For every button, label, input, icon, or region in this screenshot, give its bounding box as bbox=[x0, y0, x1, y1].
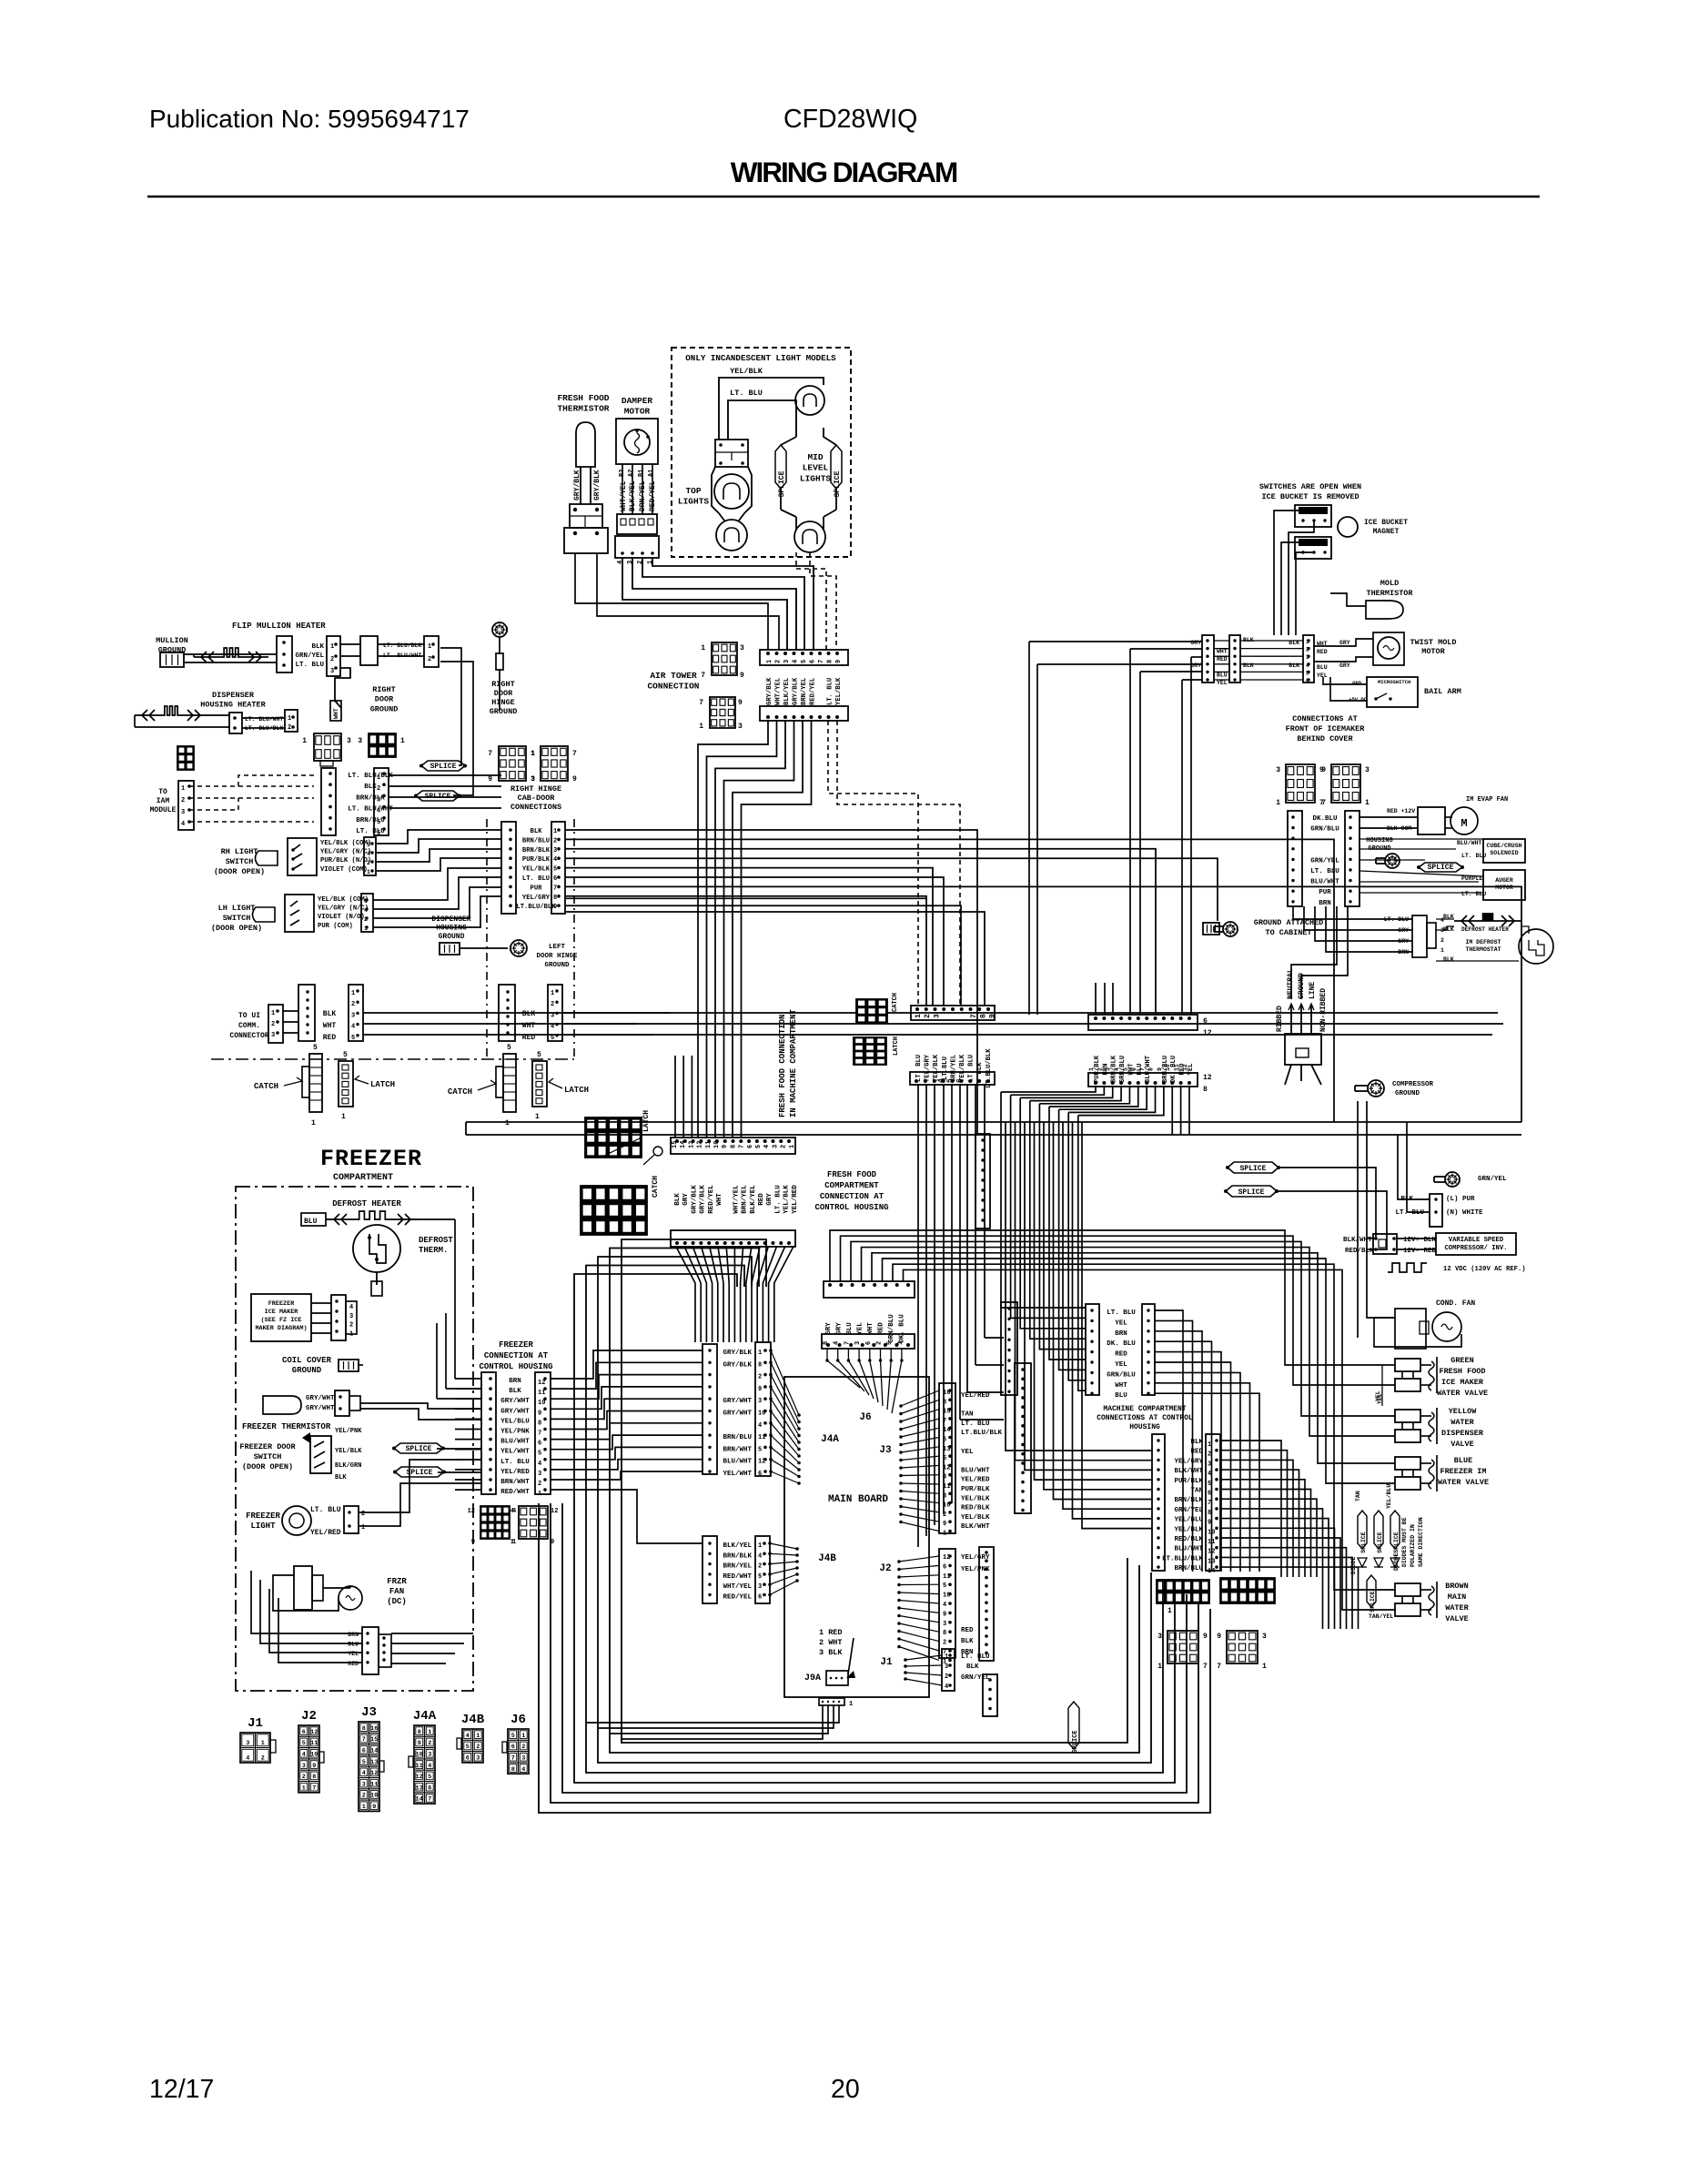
freezer conn dark grid A bbox=[468, 1506, 517, 1546]
splice right 2 bbox=[1224, 1186, 1279, 1197]
svg-text:6: 6 bbox=[1131, 1067, 1137, 1071]
svg-text:6: 6 bbox=[865, 1341, 873, 1345]
svg-text:BRN: BRN bbox=[348, 1632, 359, 1638]
svg-text:6: 6 bbox=[538, 1441, 541, 1448]
svg-text:HOUSING: HOUSING bbox=[1129, 1423, 1160, 1431]
svg-text:GRY: GRY bbox=[836, 1322, 844, 1335]
svg-text:GRN/BLU: GRN/BLU bbox=[888, 1314, 895, 1343]
svg-text:YEL/RED: YEL/RED bbox=[500, 1469, 530, 1476]
svg-text:GROUND: GROUND bbox=[1395, 1090, 1420, 1097]
j3 right strip bbox=[1015, 1363, 1031, 1513]
cond fan wires bbox=[1374, 1318, 1461, 1347]
svg-text:9: 9 bbox=[722, 1145, 729, 1148]
svg-text:WATER VALVE: WATER VALVE bbox=[1437, 1389, 1488, 1398]
latch leader bbox=[601, 1137, 642, 1158]
svg-text:CONNECTION AT: CONNECTION AT bbox=[484, 1351, 549, 1360]
svg-text:7: 7 bbox=[970, 1014, 978, 1018]
svg-text:2: 2 bbox=[1208, 1451, 1211, 1459]
defrost right blk labels bbox=[1443, 914, 1454, 963]
svg-text:RED/BLK: RED/BLK bbox=[961, 1505, 990, 1512]
svg-text:1: 1 bbox=[400, 737, 405, 745]
svg-text:9: 9 bbox=[835, 660, 843, 663]
svg-text:BLK: BLK bbox=[509, 1388, 521, 1395]
svg-text:BRN/BLU: BRN/BLU bbox=[1174, 1565, 1203, 1572]
svg-text:THERMISTOR: THERMISTOR bbox=[1366, 589, 1413, 598]
ff conn wire labels bbox=[674, 1185, 799, 1214]
svg-text:A1: A1 bbox=[648, 470, 655, 477]
dispenser heater leads bbox=[135, 715, 229, 727]
svg-text:GROUND: GROUND bbox=[544, 962, 570, 969]
diodes must be label bbox=[1401, 1517, 1424, 1567]
legend J2 bbox=[298, 1709, 324, 1793]
svg-text:8: 8 bbox=[943, 1630, 946, 1637]
mullion ground block bbox=[160, 652, 184, 667]
svg-text:MOTOR: MOTOR bbox=[624, 407, 651, 417]
title underline bbox=[147, 196, 1540, 198]
svg-text:LT. BLU: LT. BLU bbox=[310, 1506, 341, 1514]
svg-text:12: 12 bbox=[1203, 1029, 1212, 1037]
svg-text:3: 3 bbox=[1365, 766, 1370, 774]
svg-text:BLU/WHT: BLU/WHT bbox=[1457, 840, 1481, 846]
svg-text:J2: J2 bbox=[879, 1563, 891, 1574]
nonribbed label bbox=[1319, 988, 1328, 1032]
svg-text:YEL/BLK: YEL/BLK bbox=[961, 1514, 990, 1522]
mid right strip connector bbox=[1001, 1302, 1017, 1395]
svg-text:YEL/WHT: YEL/WHT bbox=[723, 1471, 752, 1478]
svg-text:4: 4 bbox=[510, 1508, 514, 1515]
dispenser housing ground lug bbox=[440, 940, 527, 956]
svg-text:4: 4 bbox=[367, 851, 370, 857]
svg-text:YEL/BLU: YEL/BLU bbox=[1386, 1484, 1392, 1509]
valve splices bbox=[1358, 1511, 1400, 1553]
svg-text:DK. BLU: DK. BLU bbox=[899, 1314, 906, 1343]
damper motor box bbox=[616, 419, 658, 464]
svg-text:11: 11 bbox=[705, 1141, 713, 1148]
svg-text:11: 11 bbox=[538, 1390, 545, 1397]
svg-text:FRESH FOOD: FRESH FOOD bbox=[827, 1170, 877, 1179]
mid level lights label bbox=[800, 452, 832, 483]
air tower strip wire labels bbox=[766, 677, 843, 705]
j4b outer strip bbox=[702, 1536, 717, 1603]
svg-text:RED: RED bbox=[758, 1193, 765, 1206]
j2 pin strip bbox=[939, 1549, 955, 1665]
svg-text:8: 8 bbox=[730, 1145, 737, 1148]
freezer connection label bbox=[479, 1340, 552, 1371]
svg-text:5: 5 bbox=[551, 1035, 554, 1042]
mid right strip feeds bbox=[985, 1337, 1001, 1339]
svg-text:6: 6 bbox=[1208, 1491, 1211, 1498]
svg-text:GRY/WHT: GRY/WHT bbox=[500, 1398, 530, 1405]
svg-text:BLU/WHT: BLU/WHT bbox=[723, 1459, 752, 1466]
svg-text:RED: RED bbox=[961, 1627, 974, 1634]
svg-text:1: 1 bbox=[531, 751, 535, 758]
svg-text:J6: J6 bbox=[510, 1713, 526, 1727]
svg-text:COMPRESSOR: COMPRESSOR bbox=[1392, 1081, 1434, 1088]
svg-text:7: 7 bbox=[572, 750, 577, 758]
svg-text:MAKER DIAGRAM): MAKER DIAGRAM) bbox=[255, 1325, 307, 1332]
svg-text:BLU/WHT: BLU/WHT bbox=[1174, 1546, 1203, 1553]
j1 labels bbox=[961, 1653, 990, 1682]
im conn wires BC bbox=[1240, 641, 1303, 680]
svg-text:HOUSING HEATER: HOUSING HEATER bbox=[200, 701, 266, 710]
svg-text:3: 3 bbox=[783, 660, 791, 663]
svg-text:1 RED: 1 RED bbox=[819, 1628, 843, 1637]
svg-text:8: 8 bbox=[979, 1014, 987, 1018]
freezer light pill bbox=[263, 1396, 301, 1414]
wire mullion to right bbox=[378, 644, 424, 656]
freezer compartment subtitle bbox=[333, 1173, 393, 1183]
j4a labels left bbox=[723, 1350, 752, 1478]
svg-text:J1: J1 bbox=[880, 1657, 893, 1668]
im evap fan conn bbox=[1387, 807, 1445, 834]
svg-text:FRESH FOOD CONNECTION: FRESH FOOD CONNECTION bbox=[778, 1015, 787, 1117]
damper motor wire labels bbox=[620, 480, 657, 511]
diode symbols bbox=[1358, 1558, 1400, 1567]
bail arm box bbox=[1367, 677, 1461, 707]
svg-text:BLK: BLK bbox=[966, 1663, 979, 1671]
svg-text:5: 5 bbox=[758, 1446, 762, 1453]
mullion down wires bbox=[440, 648, 473, 795]
svg-text:4: 4 bbox=[945, 1683, 948, 1691]
auger motor box bbox=[1483, 870, 1525, 900]
svg-text:+5V DC: +5V DC bbox=[1349, 696, 1368, 703]
svg-text:YEL/BLK: YEL/BLK bbox=[730, 367, 763, 376]
svg-text:LT. BLU: LT. BLU bbox=[961, 1653, 990, 1661]
ff machine strip upper bbox=[911, 1006, 995, 1020]
svg-text:5: 5 bbox=[367, 842, 370, 848]
svg-text:WHT: WHT bbox=[867, 1322, 874, 1335]
header model number bbox=[783, 105, 917, 134]
12vdc label bbox=[1443, 1266, 1526, 1273]
svg-text:10: 10 bbox=[538, 1400, 545, 1407]
svg-text:BLK: BLK bbox=[364, 784, 377, 791]
svg-text:GROUND: GROUND bbox=[439, 933, 465, 941]
grid pair A bbox=[1157, 1631, 1208, 1671]
svg-text:6: 6 bbox=[758, 1594, 762, 1602]
svg-text:MAGNET: MAGNET bbox=[1373, 528, 1400, 536]
svg-text:GRY/BLK: GRY/BLK bbox=[723, 1361, 752, 1369]
svg-text:GRY: GRY bbox=[682, 1193, 690, 1206]
freezer splice 2 bbox=[393, 1467, 446, 1477]
svg-text:4: 4 bbox=[553, 856, 557, 864]
svg-text:12: 12 bbox=[468, 1508, 475, 1515]
svg-text:3: 3 bbox=[531, 776, 535, 784]
svg-text:5: 5 bbox=[377, 819, 380, 826]
dark connector pair A bbox=[1157, 1580, 1209, 1615]
freezer strip right wires bbox=[551, 1350, 702, 1543]
svg-text:RED/BLK: RED/BLK bbox=[1174, 1536, 1203, 1543]
to iam module label bbox=[150, 788, 177, 814]
svg-text:LATCH: LATCH bbox=[564, 1086, 589, 1095]
svg-text:IM DEFROST: IM DEFROST bbox=[1465, 939, 1501, 945]
svg-text:2: 2 bbox=[1097, 1067, 1103, 1071]
mullion connector 123 bbox=[327, 636, 340, 676]
svg-text:PUR/BLK: PUR/BLK bbox=[961, 1486, 990, 1493]
right door hinge ground label bbox=[490, 680, 518, 716]
svg-text:VIOLET (COM): VIOLET (COM) bbox=[320, 866, 368, 874]
svg-text:1: 1 bbox=[1208, 1441, 1211, 1449]
svg-text:6: 6 bbox=[377, 830, 380, 837]
svg-text:YEL/PNK: YEL/PNK bbox=[335, 1428, 362, 1435]
ui2 wires right bbox=[562, 1013, 1503, 1035]
svg-text:DEFROST: DEFROST bbox=[419, 1236, 453, 1245]
label YEL/BLK bbox=[730, 367, 763, 376]
svg-text:3: 3 bbox=[551, 1012, 554, 1019]
svg-text:J4A: J4A bbox=[821, 1434, 839, 1445]
svg-text:IN MACHINE COMPARTMENT: IN MACHINE COMPARTMENT bbox=[789, 1009, 798, 1117]
splice a bbox=[419, 761, 467, 771]
freezer splice 1 bbox=[392, 1443, 445, 1453]
latch label 1 bbox=[355, 1076, 395, 1089]
svg-text:3: 3 bbox=[377, 796, 380, 804]
left door hinge ground label bbox=[536, 944, 578, 969]
svg-text:3: 3 bbox=[943, 1492, 946, 1500]
flip mullion heater element bbox=[194, 648, 268, 662]
svg-text:7: 7 bbox=[488, 750, 492, 758]
defrost heater element bbox=[327, 1211, 418, 1225]
svg-text:CONTROL HOUSING: CONTROL HOUSING bbox=[814, 1203, 888, 1212]
svg-text:3: 3 bbox=[330, 668, 334, 675]
svg-text:LT. BLU: LT. BLU bbox=[1461, 853, 1486, 859]
right hinge pin strip bbox=[551, 822, 565, 914]
svg-text:GREEN: GREEN bbox=[1450, 1356, 1474, 1365]
yellow water dispenser valve bbox=[1395, 1407, 1484, 1449]
svg-text:YEL/RED: YEL/RED bbox=[792, 1185, 799, 1214]
svg-text:9: 9 bbox=[1217, 1633, 1221, 1641]
svg-text:2: 2 bbox=[428, 656, 431, 663]
svg-text:LT.BLU: LT.BLU bbox=[942, 1057, 949, 1080]
svg-text:YEL/PNK: YEL/PNK bbox=[500, 1429, 530, 1436]
svg-text:7: 7 bbox=[553, 885, 557, 892]
svg-text:BLK: BLK bbox=[674, 1193, 682, 1206]
svg-text:BLK/WHT: BLK/WHT bbox=[961, 1523, 990, 1531]
latch symbol 2 bbox=[532, 1051, 547, 1121]
svg-text:LINE: LINE bbox=[1309, 982, 1317, 999]
wires cab conn right bbox=[389, 775, 501, 808]
svg-text:ICE BUCKET: ICE BUCKET bbox=[1364, 519, 1408, 527]
svg-text:VALVE: VALVE bbox=[1445, 1614, 1469, 1623]
svg-text:5: 5 bbox=[886, 1341, 894, 1345]
svg-text:(L) PUR: (L) PUR bbox=[1446, 1196, 1475, 1203]
square wave symbol bbox=[1388, 1263, 1427, 1272]
j2 label bbox=[879, 1563, 891, 1574]
vsc connector bbox=[1373, 1234, 1397, 1254]
svg-text:BRN/BLK: BRN/BLK bbox=[1174, 1497, 1203, 1504]
svg-text:1: 1 bbox=[535, 1113, 540, 1121]
j6 fan wires bbox=[825, 1349, 903, 1413]
svg-text:DISPENSER: DISPENSER bbox=[431, 915, 470, 924]
svg-text:12: 12 bbox=[538, 1380, 545, 1387]
svg-text:YEL/BLK: YEL/BLK bbox=[959, 1054, 966, 1082]
svg-text:GROUND: GROUND bbox=[370, 704, 399, 713]
svg-text:BRN/BLU: BRN/BLU bbox=[356, 817, 385, 824]
svg-text:J4A: J4A bbox=[413, 1709, 437, 1724]
svg-text:BLK: BLK bbox=[1289, 662, 1299, 669]
svg-text:GRY/BLK: GRY/BLK bbox=[691, 1185, 698, 1214]
mold thermistor label bbox=[1366, 579, 1413, 598]
svg-text:GRY/WHT: GRY/WHT bbox=[723, 1398, 752, 1405]
svg-text:FREEZER DOOR: FREEZER DOOR bbox=[239, 1442, 296, 1451]
svg-text:5: 5 bbox=[351, 1035, 355, 1042]
j1 fan wires bbox=[904, 1655, 942, 1685]
svg-text:3: 3 bbox=[772, 1145, 779, 1148]
svg-text:1: 1 bbox=[181, 785, 185, 793]
center right vertical bundle B bbox=[1006, 1122, 1152, 1529]
svg-text:8: 8 bbox=[827, 660, 834, 663]
cond fan label bbox=[1436, 1299, 1475, 1308]
svg-text:PUR/BLK: PUR/BLK bbox=[522, 856, 551, 864]
bottom nested wire loops bbox=[539, 1239, 1210, 1813]
svg-text:YEL/BLK: YEL/BLK bbox=[835, 677, 843, 705]
im evap wires bbox=[1359, 817, 1452, 828]
svg-text:6: 6 bbox=[955, 1078, 964, 1083]
fresh food thermistor wire labels bbox=[573, 470, 601, 500]
svg-text:6: 6 bbox=[747, 1145, 754, 1148]
svg-text:YEL: YEL bbox=[961, 1449, 974, 1456]
svg-text:GRY: GRY bbox=[766, 1193, 773, 1206]
svg-text:LT. BLU/WHT: LT. BLU/WHT bbox=[245, 716, 283, 723]
svg-text:7: 7 bbox=[1217, 1663, 1221, 1671]
svg-text:DISPENSER: DISPENSER bbox=[1441, 1429, 1484, 1438]
svg-text:3: 3 bbox=[271, 1032, 275, 1039]
svg-text:BLK: BLK bbox=[335, 1474, 347, 1481]
im conn labels A bbox=[1190, 640, 1228, 686]
svg-text:LT. BLU: LT. BLU bbox=[961, 1421, 990, 1428]
cond fan circle bbox=[1432, 1312, 1461, 1341]
svg-text:RED/WHT: RED/WHT bbox=[723, 1573, 752, 1581]
svg-text:1: 1 bbox=[538, 1491, 541, 1498]
catch label lower bbox=[643, 1147, 662, 1198]
j2 right strip bbox=[979, 1547, 994, 1661]
svg-text:DK. BLU: DK. BLU bbox=[1107, 1340, 1136, 1348]
svg-text:4: 4 bbox=[793, 660, 800, 663]
im switch wires bbox=[1274, 511, 1314, 635]
svg-text:J4B: J4B bbox=[818, 1553, 836, 1564]
svg-text:THERMISTOR: THERMISTOR bbox=[557, 404, 609, 414]
svg-text:CONNECTOR: CONNECTOR bbox=[229, 1032, 268, 1040]
im defrost thermostat bbox=[1465, 929, 1553, 964]
svg-text:LT. BLU/BLK: LT. BLU/BLK bbox=[383, 642, 421, 649]
bail arm labels bbox=[1349, 680, 1368, 703]
top lights label bbox=[678, 486, 710, 507]
frzr fan label bbox=[387, 1577, 407, 1606]
svg-text:6: 6 bbox=[553, 875, 557, 883]
svg-text:(DOOR OPEN): (DOOR OPEN) bbox=[211, 924, 262, 933]
svg-text:CFD28WIQ: CFD28WIQ bbox=[783, 105, 917, 134]
j6 lower strip bbox=[822, 1334, 915, 1349]
power cord tails bbox=[1285, 1065, 1321, 1085]
ui comm wires bbox=[283, 1011, 298, 1033]
svg-text:9: 9 bbox=[553, 904, 557, 911]
svg-text:FREEZER THERMISTOR: FREEZER THERMISTOR bbox=[242, 1422, 331, 1431]
j4a label bbox=[821, 1434, 839, 1445]
ff machine strip lower bbox=[910, 1072, 995, 1085]
icemaker strip labels bbox=[1310, 815, 1339, 907]
svg-text:1: 1 bbox=[505, 1119, 510, 1127]
svg-text:LT. BLU: LT. BLU bbox=[968, 1055, 975, 1082]
svg-text:YEL/BLK: YEL/BLK bbox=[335, 1448, 362, 1455]
svg-text:MAIN BOARD: MAIN BOARD bbox=[828, 1494, 888, 1505]
svg-text:LIGHTS: LIGHTS bbox=[678, 497, 710, 507]
svg-text:3: 3 bbox=[943, 1621, 946, 1628]
svg-text:BLU/WHT: BLU/WHT bbox=[500, 1439, 530, 1446]
rh light switch label bbox=[214, 847, 265, 876]
lh light switch label bbox=[211, 904, 262, 933]
svg-text:1: 1 bbox=[1365, 799, 1370, 807]
svg-text:RED/WHT: RED/WHT bbox=[500, 1489, 530, 1496]
svg-text:7: 7 bbox=[538, 1431, 541, 1438]
svg-text:GRN/YEL: GRN/YEL bbox=[961, 1674, 990, 1682]
svg-text:CONNECTION AT: CONNECTION AT bbox=[820, 1192, 884, 1201]
cube crush box bbox=[1483, 839, 1525, 863]
svg-text:GRY/BLK: GRY/BLK bbox=[593, 470, 601, 500]
six pin connector light bbox=[302, 733, 351, 766]
svg-text:9: 9 bbox=[758, 1386, 762, 1393]
svg-text:GRY: GRY bbox=[825, 1322, 833, 1335]
interference filter bbox=[1395, 1194, 1483, 1227]
svg-text:8: 8 bbox=[553, 895, 557, 902]
svg-text:COIL COVER: COIL COVER bbox=[282, 1356, 332, 1365]
svg-text:MICROSWITCH: MICROSWITCH bbox=[1378, 679, 1410, 685]
dispenser wire labels bbox=[245, 716, 283, 732]
svg-text:IAM: IAM bbox=[157, 797, 170, 805]
svg-text:20: 20 bbox=[831, 2075, 860, 2104]
svg-text:2: 2 bbox=[924, 1014, 932, 1018]
fresh food thermistor wires down bbox=[575, 553, 779, 650]
j4b fan wires bbox=[768, 1542, 799, 1596]
svg-text:WHT: WHT bbox=[323, 1022, 337, 1030]
svg-text:COMPARTMENT: COMPARTMENT bbox=[333, 1173, 393, 1183]
svg-text:3: 3 bbox=[738, 723, 743, 731]
svg-text:10: 10 bbox=[1165, 1064, 1171, 1071]
svg-text:1: 1 bbox=[377, 774, 380, 782]
svg-text:LT. BLU: LT. BLU bbox=[295, 662, 324, 669]
label LT. BLU bbox=[730, 389, 763, 398]
svg-text:VALVE: VALVE bbox=[1450, 1440, 1474, 1449]
svg-text:YEL/BLU: YEL/BLU bbox=[1174, 1517, 1203, 1524]
svg-text:3: 3 bbox=[1276, 766, 1280, 774]
svg-text:TO UI: TO UI bbox=[238, 1012, 260, 1020]
svg-text:GRY: GRY bbox=[1339, 662, 1350, 669]
svg-text:1: 1 bbox=[789, 1145, 796, 1148]
svg-text:DIODE: DIODE bbox=[1393, 1552, 1400, 1571]
svg-text:5: 5 bbox=[553, 866, 557, 874]
mc12 strip lower bbox=[1088, 1064, 1198, 1087]
footer date 12/17 bbox=[149, 2075, 214, 2104]
ui right strip bbox=[349, 985, 363, 1042]
svg-text:SPLICE: SPLICE bbox=[1360, 1532, 1367, 1553]
air tower grid connector lower bbox=[699, 697, 743, 731]
svg-text:1: 1 bbox=[330, 643, 334, 651]
fresh food thermistor connector bbox=[564, 504, 608, 553]
auger labels bbox=[1461, 875, 1486, 897]
svg-text:1: 1 bbox=[551, 990, 554, 997]
svg-text:SPLICE: SPLICE bbox=[1428, 864, 1454, 872]
svg-text:GRN/BLU: GRN/BLU bbox=[1310, 826, 1339, 834]
svg-text:12: 12 bbox=[697, 1141, 704, 1148]
svg-text:BLK/GRN: BLK/GRN bbox=[335, 1462, 361, 1470]
svg-text:HINGE: HINGE bbox=[491, 698, 515, 707]
j4b label bbox=[818, 1553, 836, 1564]
im9 strip left bbox=[1086, 1304, 1099, 1395]
svg-text:3: 3 bbox=[1157, 1633, 1162, 1641]
svg-text:1: 1 bbox=[701, 644, 705, 652]
svg-text:BLK: BLK bbox=[323, 1010, 337, 1018]
svg-text:9: 9 bbox=[471, 1539, 475, 1546]
svg-text:SWITCH: SWITCH bbox=[226, 857, 254, 866]
svg-text:MULLION: MULLION bbox=[156, 636, 188, 645]
legend J4A bbox=[409, 1709, 437, 1804]
